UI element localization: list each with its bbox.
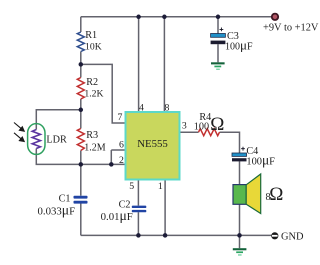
svg-text:1: 1 <box>158 181 163 192</box>
svg-text:R3: R3 <box>86 130 98 141</box>
svg-text:1.2K: 1.2K <box>84 89 103 100</box>
svg-text:Ω: Ω <box>210 114 224 135</box>
svg-text:LDR: LDR <box>46 134 67 145</box>
svg-text:7: 7 <box>118 112 123 123</box>
svg-text:10K: 10K <box>85 42 102 53</box>
svg-text:GND: GND <box>281 232 304 243</box>
svg-text:1.2M: 1.2M <box>84 143 106 154</box>
svg-text:0.01μF: 0.01μF <box>101 208 133 223</box>
svg-text:5: 5 <box>129 181 134 192</box>
svg-text:4: 4 <box>139 103 144 114</box>
svg-text:0.033μF: 0.033μF <box>38 203 76 218</box>
svg-text:C4: C4 <box>246 146 258 157</box>
svg-text:NE555: NE555 <box>137 138 168 150</box>
svg-text:8: 8 <box>165 103 170 114</box>
svg-text:100: 100 <box>194 122 209 133</box>
svg-text:3: 3 <box>182 121 187 132</box>
svg-text:6: 6 <box>119 139 124 150</box>
svg-text:C3: C3 <box>227 31 239 42</box>
svg-text:Ω: Ω <box>269 184 283 205</box>
svg-text:R1: R1 <box>85 30 97 41</box>
svg-text:2: 2 <box>119 155 124 166</box>
svg-text:+9V to +12V: +9V to +12V <box>263 23 319 34</box>
svg-text:R2: R2 <box>86 77 98 88</box>
